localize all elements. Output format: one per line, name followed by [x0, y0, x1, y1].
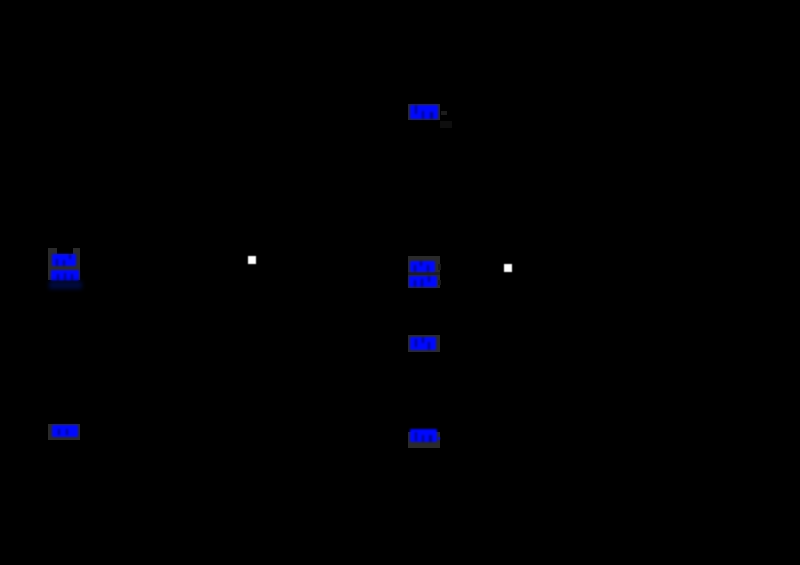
- op-amp U1 divider: [408, 272, 440, 275]
- connector J1 body: [48, 248, 80, 280]
- connector J1 name: [52, 254, 76, 266]
- node VCC label box: [408, 104, 440, 120]
- pin 1 tick of VCC: [441, 111, 447, 115]
- capacitor C1 label box: [408, 432, 440, 448]
- node VCC text: [410, 105, 438, 119]
- op-amp U1 name: [410, 261, 435, 272]
- op-amp U1 pin stub right 2: [438, 280, 441, 285]
- junction node B: [504, 264, 512, 272]
- op-amp U1 pin stub right: [438, 264, 441, 270]
- capacitor C1 value: [410, 429, 437, 442]
- transistor Q1 (faint): [440, 121, 452, 128]
- capacitor C1 pin dot: [438, 437, 440, 440]
- op-amp U1 value: [409, 276, 437, 287]
- junction node A: [248, 256, 256, 264]
- resistor R1 value: [410, 337, 436, 350]
- op-amp U1 body: [408, 256, 440, 288]
- ground GND label box: [48, 424, 80, 440]
- connector J1 pin row (dim): [49, 281, 82, 289]
- resistor R1 label box: [408, 335, 440, 352]
- connector J1 notch: [57, 248, 73, 254]
- ground GND text: [52, 425, 78, 437]
- connector J1 value: [51, 270, 79, 281]
